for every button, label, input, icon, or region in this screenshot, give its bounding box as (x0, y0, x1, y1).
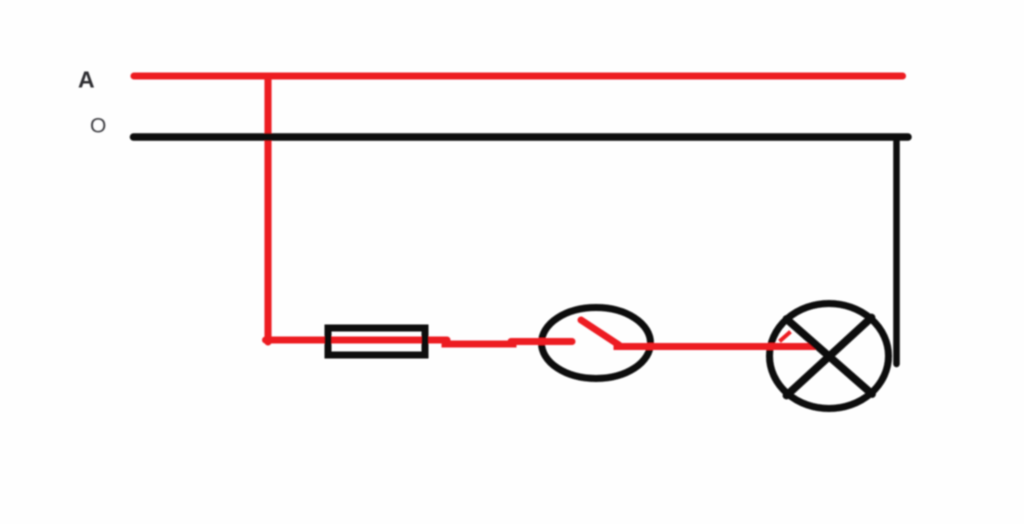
svg-text:O: O (90, 115, 106, 138)
lamp L (black circle outline) (770, 304, 889, 409)
switch lever (red diagonal) (581, 320, 619, 345)
wire: neutral line O (black, horizontal) (134, 133, 909, 141)
red tick mark at lamp entry (781, 333, 789, 340)
wire: red jog segment after fuse (445, 341, 513, 348)
lamp cross stroke 2 (787, 318, 872, 396)
wire: red segment entering switch (511, 338, 572, 345)
lamp cross stroke 1 (787, 319, 873, 394)
wire: red vertical drop from phase line (264, 76, 271, 342)
wire: black vertical from neutral line down to lamp (893, 137, 900, 364)
svg-text:A: A (78, 67, 95, 93)
switch S (black ellipse) (542, 308, 651, 379)
fuse F (black rectangle) (328, 328, 425, 355)
wire: phase line A (red, top horizontal) (134, 72, 903, 79)
wire: red segment from switch to lamp (617, 343, 812, 350)
wire: red bottom segment through fuse (266, 337, 448, 344)
